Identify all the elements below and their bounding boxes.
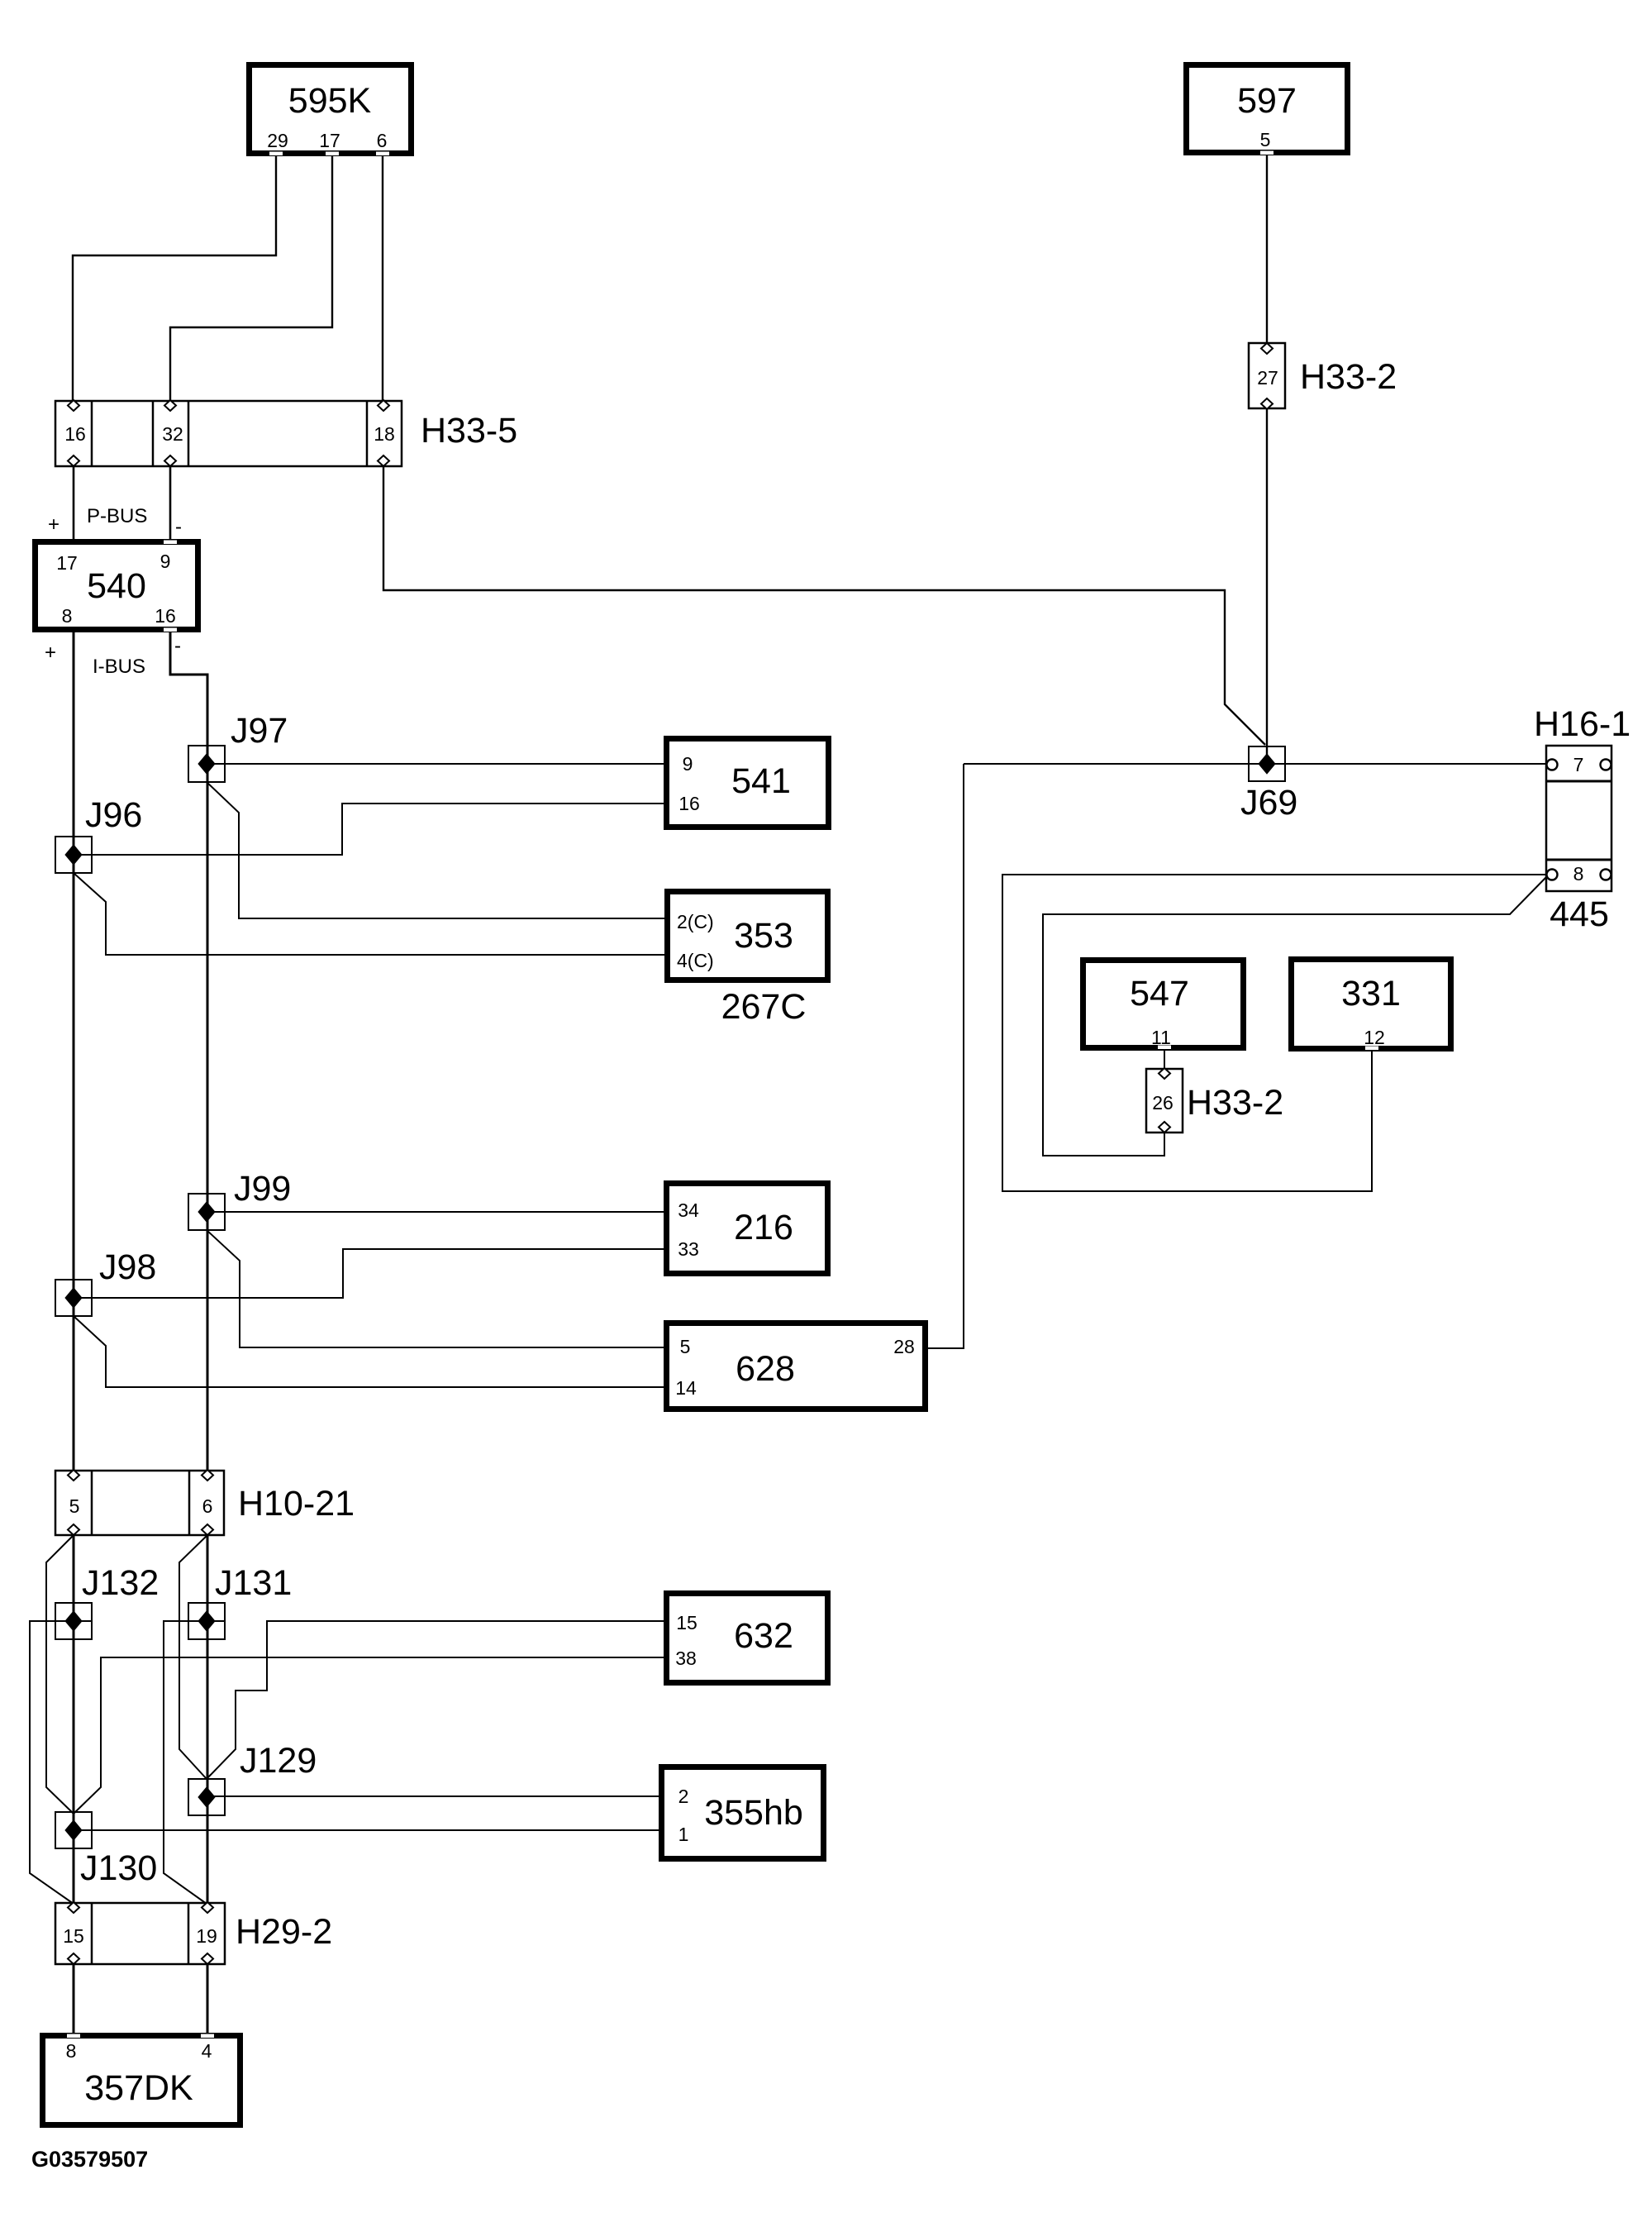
svg-text:33: 33 (678, 1238, 699, 1260)
svg-text:357DK: 357DK (84, 2068, 193, 2108)
svg-text:8: 8 (62, 605, 73, 627)
wire I-BUS+ 540.8 down (through J96 J98) to H10-21.5 (73, 632, 75, 1471)
wire H10-21.6 branch to J129 (179, 1535, 207, 1779)
wire J129 to 355hb pin2 (207, 1795, 661, 1797)
svg-text:J96: J96 (85, 795, 142, 835)
junction J132 (55, 1603, 92, 1639)
svg-text:+: + (45, 641, 56, 664)
connector H16-1 (1546, 746, 1612, 891)
svg-text:6: 6 (202, 1495, 213, 1517)
svg-text:J97: J97 (231, 711, 288, 751)
svg-text:15: 15 (63, 1925, 84, 1947)
junction J129 (188, 1779, 225, 1815)
component box 597 (1187, 65, 1348, 153)
svg-text:I-BUS: I-BUS (93, 656, 145, 678)
junction J98 (55, 1280, 92, 1316)
wire J130 to 355hb pin1 (74, 1829, 661, 1831)
connector H16-1 pin circles (1547, 760, 1612, 880)
wire P-BUS- H33-5.32 to 540.9 (169, 466, 172, 539)
svg-text:J130: J130 (80, 1848, 157, 1888)
wire P-BUS+ H33-5.16 to 540.17 (73, 466, 75, 539)
notch 597 pin5 (1260, 151, 1274, 155)
notch 331 pin12 (1365, 1047, 1378, 1051)
svg-text:547: 547 (1130, 974, 1189, 1013)
svg-text:28: 28 (893, 1336, 915, 1357)
svg-text:38: 38 (675, 1648, 697, 1669)
svg-text:J132: J132 (82, 1563, 159, 1603)
connector H33-5 pin diamonds (68, 400, 389, 466)
wire J98 branch to 628 pin14 (74, 1316, 666, 1387)
notch 540 pin9 top (164, 541, 177, 545)
wire J99 to 216 pin34 (207, 1211, 666, 1213)
svg-text:J98: J98 (99, 1247, 156, 1287)
svg-text:P-BUS: P-BUS (87, 505, 147, 527)
svg-text:355hb: 355hb (704, 1793, 803, 1833)
wire 595K pin29 to H33-5 pin16 (73, 154, 276, 401)
svg-text:J129: J129 (240, 1741, 317, 1781)
svg-text:628: 628 (736, 1349, 795, 1389)
connector H33-2 pin27 (1249, 343, 1285, 408)
svg-text:H33-5: H33-5 (421, 411, 517, 451)
svg-text:8: 8 (1573, 863, 1584, 885)
svg-text:14: 14 (675, 1377, 697, 1399)
svg-text:9: 9 (160, 551, 171, 572)
svg-text:7: 7 (1573, 754, 1584, 775)
svg-text:1: 1 (678, 1824, 689, 1845)
wire 597.5 to H33-2.27 (1266, 154, 1268, 343)
notch 595K pin17 (326, 152, 339, 156)
wire H33-2.27 to J69 (1266, 408, 1268, 764)
svg-text:26: 26 (1152, 1092, 1174, 1113)
junction J97 (188, 746, 225, 782)
svg-text:11: 11 (1151, 1027, 1171, 1048)
wire H33-5.18 to J69 (383, 466, 1265, 745)
svg-text:G03579507: G03579507 (31, 2147, 148, 2172)
svg-text:J99: J99 (234, 1169, 291, 1209)
svg-text:541: 541 (731, 761, 791, 801)
connector H33-2 pin26 (1146, 1069, 1183, 1133)
svg-text:19: 19 (196, 1925, 217, 1947)
notch 357DK pin4 (201, 2034, 214, 2039)
svg-text:6: 6 (377, 130, 388, 151)
svg-text:15: 15 (676, 1612, 697, 1633)
svg-text:H33-2: H33-2 (1300, 357, 1397, 397)
notch 357DK pin8 (67, 2034, 80, 2039)
wire J99 branch to 628 pin5 (207, 1230, 666, 1347)
wire J132 branch to H29-2.15 (30, 1621, 92, 1904)
wire I-BUS- H10-21.6 down (through J131 J129) to H29-2.19 (207, 1535, 209, 1903)
wire J96 branch to 353 pin4C (74, 873, 666, 955)
wire J97 to 541 pin9 (207, 763, 666, 765)
wire 331 pin12 to H16-1 pin8 (1002, 875, 1547, 1191)
svg-text:4: 4 (202, 2040, 212, 2062)
svg-text:8: 8 (66, 2040, 77, 2062)
notch 595K pin29 (269, 152, 283, 156)
svg-text:5: 5 (680, 1336, 691, 1357)
wire H10-21.5 branch to J130 (46, 1535, 74, 1814)
wire 595K pin17 to H33-5 pin32 (170, 154, 332, 401)
component box 547 (1083, 961, 1244, 1048)
svg-text:H10-21: H10-21 (238, 1484, 355, 1524)
svg-text:5: 5 (1260, 129, 1271, 150)
component box 357DK (43, 2036, 240, 2125)
svg-text:H16-1: H16-1 (1534, 704, 1631, 744)
component box 632 (667, 1594, 828, 1683)
wire I-BUS- H29-2.19 to 357DK pin4 (207, 1964, 209, 2035)
component box 628 (667, 1323, 926, 1409)
svg-text:5: 5 (69, 1495, 80, 1517)
wire I-BUS+ H29-2.15 to 357DK pin8 (73, 1964, 75, 2035)
component box 595K (250, 65, 412, 154)
wire 632 pin15 to J129 (207, 1621, 666, 1779)
svg-text:2(C): 2(C) (677, 911, 714, 932)
svg-text:+: + (48, 513, 60, 536)
connector H10-21 pin diamonds (68, 1470, 213, 1535)
svg-text:16: 16 (155, 605, 176, 627)
wire 632 pin38 to J130 (74, 1657, 666, 1814)
notch 540 pin16 bottom (164, 628, 177, 632)
junction J130 (55, 1812, 92, 1848)
svg-text:J131: J131 (215, 1563, 292, 1603)
svg-text:18: 18 (374, 423, 395, 445)
svg-text:16: 16 (64, 423, 86, 445)
svg-text:445: 445 (1550, 894, 1609, 934)
notch 547 pin11 (1158, 1046, 1171, 1050)
svg-text:216: 216 (734, 1208, 793, 1247)
connector H29-2 (55, 1903, 225, 1964)
svg-text:331: 331 (1341, 974, 1401, 1013)
wire J69 to H16-1 pin7 (964, 763, 1547, 765)
junction J69 (1249, 746, 1285, 781)
svg-text:2: 2 (678, 1786, 689, 1807)
svg-text:H33-2: H33-2 (1187, 1083, 1283, 1123)
svg-text:597: 597 (1237, 81, 1297, 121)
junction J96 (55, 837, 92, 873)
svg-text:16: 16 (678, 793, 700, 814)
wire I-BUS- 540.16 jog down (170, 632, 207, 1471)
svg-text:12: 12 (1364, 1027, 1385, 1048)
wire J98 to 216 pin33 (74, 1249, 666, 1298)
svg-text:H29-2: H29-2 (236, 1912, 332, 1952)
wire J69 to 628 pin28 (928, 764, 964, 1348)
component box 216 (667, 1184, 828, 1274)
connector H33-5 (55, 401, 402, 466)
svg-text:29: 29 (267, 130, 288, 151)
component box 541 (667, 739, 829, 827)
svg-text:-: - (175, 516, 182, 538)
svg-text:17: 17 (319, 130, 340, 151)
svg-text:J69: J69 (1240, 783, 1297, 823)
wire I-BUS+ H10-21.5 down (through J132 J130) to H29-2.15 (73, 1535, 75, 1903)
connector H10-21 (55, 1471, 224, 1535)
svg-text:4(C): 4(C) (677, 950, 714, 971)
svg-text:632: 632 (734, 1616, 793, 1656)
svg-text:34: 34 (678, 1199, 699, 1221)
wire H33-2.26 to H16-1 pin8 (1043, 876, 1547, 1156)
svg-text:-: - (174, 635, 181, 657)
junction J99 (188, 1194, 225, 1230)
notch 595K pin6 (376, 152, 389, 156)
svg-text:595K: 595K (288, 81, 372, 121)
component box 353 (668, 892, 828, 980)
component box 540 (36, 542, 198, 630)
connector H29-2 pin diamonds (68, 1902, 213, 1964)
wire J97 branch to 353 pin2C (207, 782, 666, 918)
svg-text:17: 17 (56, 552, 78, 574)
svg-text:27: 27 (1257, 367, 1278, 389)
wire J96 to 541 pin16 (74, 804, 666, 855)
svg-text:540: 540 (87, 566, 146, 606)
component box 331 (1292, 960, 1451, 1049)
svg-text:32: 32 (162, 423, 183, 445)
wire 547 pin11 to H33-2.26 (1164, 1048, 1165, 1069)
wire J131 branch to H29-2.19 (164, 1621, 225, 1904)
wire 595K pin6 to H33-5 pin18 (382, 154, 383, 401)
svg-text:9: 9 (683, 753, 693, 775)
junction J131 (188, 1603, 225, 1639)
component box 355hb (662, 1767, 824, 1859)
svg-text:353: 353 (734, 916, 793, 956)
svg-text:267C: 267C (721, 987, 807, 1027)
